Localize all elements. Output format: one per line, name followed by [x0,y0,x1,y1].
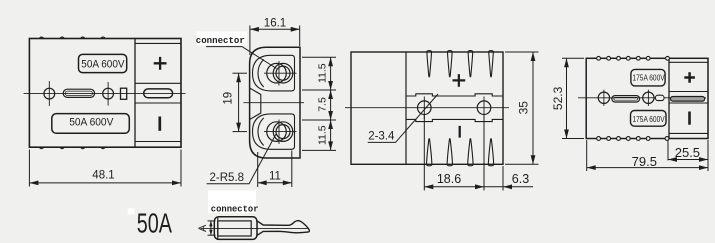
svg-text:175A 600V: 175A 600V [633,115,666,124]
svg-text:48.1: 48.1 [92,169,114,181]
svg-text:16.1: 16.1 [264,18,286,30]
svg-text:19: 19 [223,92,235,105]
svg-text:connector: connector [211,204,259,215]
svg-text:52.3: 52.3 [551,86,565,110]
svg-text:50A 600V: 50A 600V [69,116,114,128]
svg-text:11: 11 [269,171,281,183]
svg-text:A: A [197,224,209,232]
svg-text:25.5: 25.5 [675,145,700,160]
svg-text:79.5: 79.5 [632,154,657,169]
svg-text:175A 600V: 175A 600V [633,74,666,83]
svg-text:7.5: 7.5 [316,97,328,112]
svg-text:50A: 50A [137,207,172,238]
svg-text:18.6: 18.6 [437,172,461,186]
svg-text:11.5: 11.5 [316,63,328,83]
svg-text:11.5: 11.5 [316,125,328,145]
svg-text:connector: connector [196,35,245,46]
svg-text:2-R5.8: 2-R5.8 [210,172,245,184]
svg-text:50A 600V: 50A 600V [81,59,125,71]
svg-text:35: 35 [517,101,531,115]
svg-text:6.3: 6.3 [512,172,529,186]
svg-text:2-3.4: 2-3.4 [368,130,395,142]
